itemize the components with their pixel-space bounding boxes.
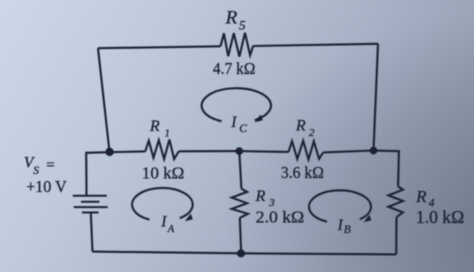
svg-text:2: 2 xyxy=(309,127,315,139)
svg-text:B: B xyxy=(344,224,351,236)
resistor R3 zigzag xyxy=(232,189,248,218)
resistor R1 zigzag xyxy=(145,140,179,160)
svg-text:5: 5 xyxy=(239,18,246,33)
wire: R2 to node C xyxy=(323,151,373,153)
resistor R5 zigzag xyxy=(221,33,254,57)
svg-text:R: R xyxy=(149,118,160,135)
svg-text:1: 1 xyxy=(165,128,170,139)
svg-text:R: R xyxy=(295,118,306,135)
wire: top right segment xyxy=(253,44,378,46)
svg-text:2.0 kΩ: 2.0 kΩ xyxy=(256,207,305,226)
wire: node B to R3 xyxy=(239,151,241,189)
wire: node C to R4 branch xyxy=(374,151,399,187)
battery VS plate short xyxy=(81,201,99,203)
arrowhead of IB xyxy=(364,215,372,223)
battery VS plate long xyxy=(74,206,108,208)
svg-text:A: A xyxy=(167,224,175,235)
svg-text:3.6 kΩ: 3.6 kΩ xyxy=(281,163,324,182)
svg-text:R: R xyxy=(255,188,266,205)
svg-text:10 kΩ: 10 kΩ xyxy=(142,163,185,182)
mesh current IB arc xyxy=(309,190,371,221)
node D (bottom junction) xyxy=(237,249,245,257)
node B (center junction) xyxy=(236,147,244,155)
svg-text:R: R xyxy=(225,8,238,29)
svg-text:I: I xyxy=(230,114,237,131)
battery VS plate long top xyxy=(73,195,107,197)
wire: bottom xyxy=(93,252,397,255)
svg-text:1.0 kΩ: 1.0 kΩ xyxy=(416,207,464,227)
svg-text:I: I xyxy=(337,217,344,234)
mesh current IC arc xyxy=(202,88,271,121)
battery VS plate short bottom xyxy=(82,212,99,214)
svg-text:+10 V: +10 V xyxy=(26,177,67,196)
wire: left vertical from top wire to node A xyxy=(98,48,110,152)
wire: battery to bottom wire xyxy=(91,213,93,252)
svg-text:R: R xyxy=(415,187,427,206)
resistor R4 zigzag xyxy=(388,187,403,218)
wire: node A to battery branch xyxy=(86,152,109,195)
wire: R4 to bottom right corner xyxy=(395,217,397,254)
wire: R1 to node B xyxy=(179,150,240,152)
svg-text:=: = xyxy=(46,158,54,174)
wire: right vertical from top wire to node C xyxy=(374,44,379,151)
svg-text:I: I xyxy=(160,214,167,231)
svg-text:S: S xyxy=(33,165,39,177)
arrowhead of IC xyxy=(255,114,263,122)
node C (right junction) xyxy=(370,147,378,155)
svg-text:4.7 kΩ: 4.7 kΩ xyxy=(213,59,256,78)
resistor R2 zigzag xyxy=(289,141,324,160)
node A (left junction) xyxy=(105,148,113,156)
wire: node A to R1 xyxy=(110,150,146,153)
wire: node B to R2 xyxy=(239,150,288,153)
svg-text:C: C xyxy=(239,123,247,135)
arrowhead of IA xyxy=(185,214,193,222)
mesh current IA arc xyxy=(132,188,193,220)
wire: top left segment xyxy=(98,46,221,48)
wire: R3 to bottom node D xyxy=(240,218,241,254)
